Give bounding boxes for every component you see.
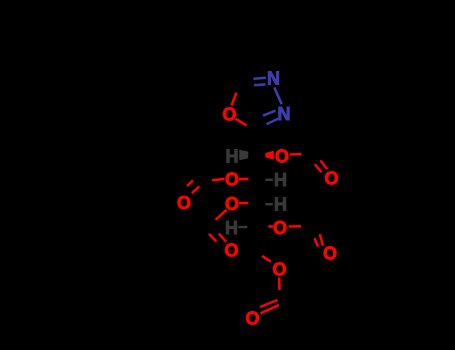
wire: C2=N3 double bond blue halves bbox=[263, 111, 276, 116]
svg-text:O: O bbox=[275, 146, 289, 166]
wire: O3-C7 bond red half bbox=[212, 179, 225, 181]
phenyl ring (black on black, invisible) bbox=[133, 17, 227, 62]
wire: O5'-C10 bond red half bbox=[278, 278, 281, 291]
wire: O3-C2' bond red half bbox=[239, 178, 249, 181]
wire: O4-C9 bond red half bbox=[216, 210, 227, 220]
wire: C5=N4 double bond blue halves bbox=[254, 78, 267, 79]
wire: C10=O10 double bond red halves bbox=[260, 300, 278, 307]
wire: C2'-H bond gray half bbox=[265, 179, 273, 181]
wire: C8=O9 double bond red halves bbox=[320, 234, 323, 245]
svg-text:O: O bbox=[323, 243, 337, 263]
svg-text:H: H bbox=[226, 146, 239, 166]
svg-text:N: N bbox=[267, 69, 280, 89]
svg-text:H: H bbox=[274, 170, 287, 190]
svg-text:O: O bbox=[324, 168, 338, 188]
svg-text:H: H bbox=[274, 195, 287, 215]
wire: O5-C8 bond red half bbox=[289, 225, 302, 228]
wire: C4'-O5 bond red half bbox=[268, 225, 273, 228]
wire: C9=O8 double bond red halves bbox=[209, 234, 216, 242]
wire: O1-C5 bond red half bbox=[232, 93, 237, 106]
wire: N3-N4 bond bbox=[274, 88, 281, 105]
svg-text:O: O bbox=[177, 193, 191, 213]
svg-text:O: O bbox=[224, 240, 238, 260]
svg-text:O: O bbox=[225, 169, 239, 189]
svg-text:N: N bbox=[278, 104, 291, 124]
wedge bond C1'-H (gray half) bbox=[239, 150, 248, 160]
wire: C3'-H bond gray half bbox=[265, 203, 273, 205]
svg-text:O: O bbox=[272, 259, 286, 279]
wire: C4'-H bond gray half bbox=[238, 226, 247, 228]
wire: O2-C6 bond red half bbox=[290, 153, 302, 156]
wedge bond C1'-O2 (red half) bbox=[265, 151, 274, 160]
svg-text:O: O bbox=[245, 308, 259, 328]
svg-text:H: H bbox=[225, 218, 238, 238]
wire: C7=O7 double bond red halves bbox=[187, 180, 193, 186]
wire: C6=O6 double bond red halves bbox=[320, 160, 327, 169]
wire: O1-C2 bond red half bbox=[236, 119, 247, 126]
svg-text:O: O bbox=[222, 104, 236, 124]
wire: C5'-O5' bond red half bbox=[262, 256, 271, 262]
svg-text:O: O bbox=[273, 218, 287, 238]
wire: O4-C3' bond red half bbox=[239, 202, 249, 205]
